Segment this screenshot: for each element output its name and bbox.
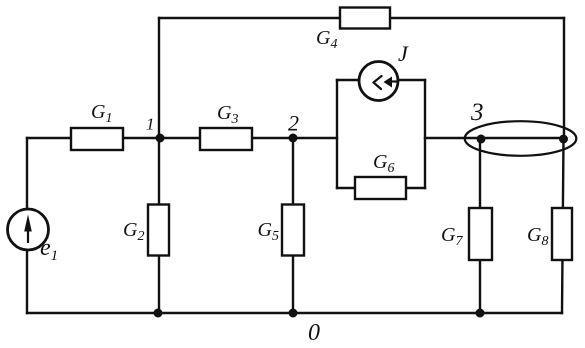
svg-text:0: 0 xyxy=(308,320,320,346)
svg-text:2: 2 xyxy=(288,111,299,136)
svg-text:1: 1 xyxy=(146,115,155,134)
svg-text:J: J xyxy=(398,41,409,66)
svg-text:3: 3 xyxy=(470,99,484,126)
